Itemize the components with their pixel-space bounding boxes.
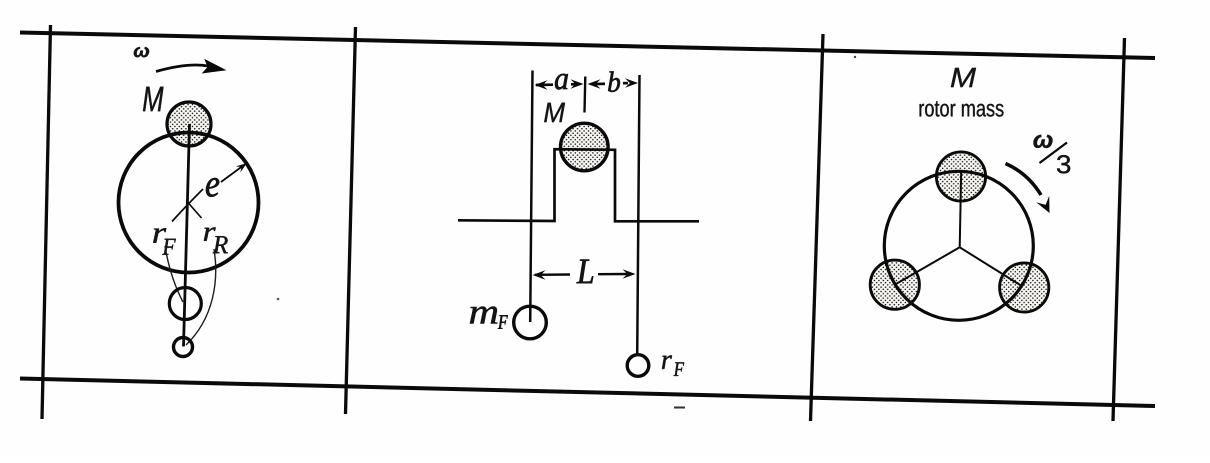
label r_F, panel 2 — [662, 355, 684, 376]
label e (eccentricity), panel 1 — [206, 178, 219, 197]
unbalance mass ball M, panel 1 — [167, 102, 211, 146]
rotor circle, panel 3 — [884, 171, 1033, 320]
frame bottom horizontal rule — [20, 379, 1155, 407]
shaft with pedestal step profile, panel 2 — [458, 149, 699, 221]
left extension line / hanger line to m_F, panel 2 — [530, 71, 532, 323]
stray scan dash below bottom rule — [674, 407, 685, 409]
correction mass circle (medium), panel 1 — [169, 288, 201, 320]
rotation direction curved arrow, panel 3 — [1006, 164, 1050, 214]
label m_F, panel 2 — [470, 307, 508, 329]
balance ball lower-right, panel 3 — [1000, 263, 1049, 312]
frame vertical rule 2 (between panel 1 and 2) — [346, 27, 356, 414]
dimension middle tick, panel 2 — [583, 77, 586, 113]
eccentricity arrow e, panel 1 — [221, 163, 247, 182]
rotor mass ball M, panel 2 — [561, 123, 609, 171]
label M (unbalance mass), panel 1 — [143, 87, 164, 112]
label omega/3 (rotation speed), panel 3 — [1034, 135, 1071, 174]
radius circle r_F, panel 2 — [627, 355, 649, 377]
dimension a arrow left — [535, 80, 554, 90]
center mark stroke b, panel 1 — [188, 202, 202, 218]
label a, panel 2 — [555, 74, 568, 90]
label r_F, panel 1 — [153, 228, 176, 255]
dimension b arrow left — [588, 79, 606, 89]
small circle at shaft end, panel 1 — [174, 338, 193, 357]
label L, panel 2 — [577, 260, 594, 284]
label omega (rotation speed), panel 1 — [134, 47, 149, 57]
center mark stroke a, panel 1 — [172, 189, 203, 222]
caption rotor mass, panel 3 — [920, 101, 1004, 116]
frame top horizontal rule — [20, 33, 1155, 59]
correction mass circle m_F, panel 2 — [514, 306, 547, 339]
leader curve from r_F to correction circle, panel 1 — [165, 246, 183, 302]
right extension line / hanger line to r_F, panel 2 — [637, 75, 639, 355]
balance ball top, panel 3 — [936, 152, 985, 201]
shaft axis vertical line through rotor, panel 1 — [184, 124, 190, 347]
stray scan dot, panel 3 — [854, 56, 856, 58]
stray scan dot, panel 1 — [277, 298, 280, 301]
label M (rotor mass), panel 3 — [951, 68, 976, 87]
spoke to lower-left ball, panel 3 — [895, 247, 960, 284]
label M (rotor mass), panel 2 — [544, 103, 565, 122]
spoke to lower-right ball, panel 3 — [960, 247, 1022, 286]
dimension a arrow right — [571, 79, 584, 89]
dimension b arrow right — [623, 78, 638, 88]
label r_R, panel 1 — [204, 227, 228, 253]
dimension L arrow left — [533, 270, 571, 280]
frame vertical rule 1 (left) — [42, 25, 51, 419]
dimension L arrow right — [598, 269, 636, 279]
label b, panel 2 — [608, 72, 620, 92]
rotor circle, panel 1 — [119, 133, 259, 273]
spoke to top ball, panel 3 — [960, 171, 962, 247]
balance ball lower-left, panel 3 — [870, 260, 919, 309]
rotation direction curved arrow, panel 1 — [156, 59, 227, 74]
leader curve from r_R to small circle, panel 1 — [186, 249, 216, 345]
frame vertical rule 3 (between panel 2 and 3) — [811, 34, 824, 421]
frame vertical rule 4 (right) — [1113, 38, 1125, 421]
